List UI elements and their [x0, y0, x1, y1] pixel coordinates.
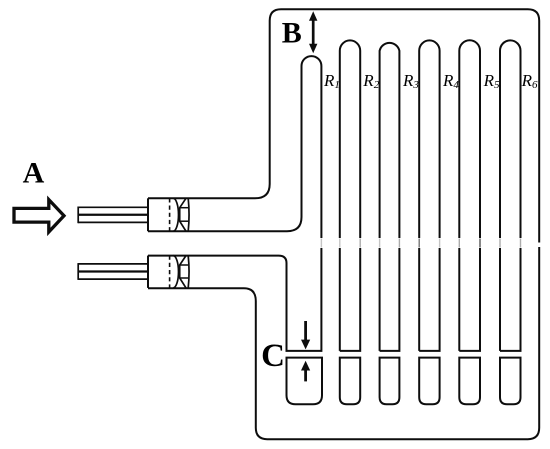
svg-text:R5: R5	[483, 71, 500, 91]
label B	[282, 16, 302, 49]
channel R6 body	[500, 40, 521, 351]
faded wall residue in gap band	[321, 239, 520, 248]
svg-text:R6: R6	[521, 71, 538, 91]
dimension arrow C down	[301, 321, 310, 349]
channel R5 body	[459, 40, 480, 351]
outlet stub 4	[419, 358, 439, 405]
lower inlet tube	[78, 263, 148, 280]
label R4	[442, 71, 459, 91]
label C	[261, 338, 285, 374]
dimension arrow C up	[301, 361, 310, 382]
channel R3 body	[380, 43, 400, 351]
inlet manifold wall (upper channel bottom wall, R1 left wall, R1 dome, R1 right wall, bottom cap, strip left wall, lower channel top wall)	[148, 56, 321, 351]
upper inlet connector	[148, 198, 189, 231]
outlet stub 6	[500, 358, 521, 405]
outlet stub 5	[459, 358, 480, 405]
channel R2 body	[340, 40, 360, 351]
chip outer outline	[148, 9, 539, 439]
svg-text:R1: R1	[323, 71, 340, 91]
dimension arrow B (double-headed vertical)	[309, 11, 317, 53]
upper inlet tube	[78, 207, 148, 224]
flow arrow A (block arrow)	[14, 200, 64, 232]
svg-text:C: C	[261, 338, 285, 374]
svg-text:A: A	[23, 156, 45, 189]
label A	[23, 156, 45, 189]
label R6	[521, 71, 538, 91]
svg-text:R2: R2	[362, 71, 379, 91]
right edge gap	[538, 243, 541, 248]
svg-text:B: B	[282, 16, 302, 49]
svg-text:R3: R3	[402, 71, 419, 91]
outlet stub 1 (below R1)	[287, 358, 323, 405]
outlet stub 3	[380, 358, 400, 405]
channel R4 body	[419, 40, 439, 351]
lower inlet connector	[148, 256, 189, 288]
label R5	[483, 71, 500, 91]
label R2	[362, 71, 379, 91]
label R1	[323, 71, 340, 91]
svg-text:R4: R4	[442, 71, 459, 91]
outlet stub 2	[340, 358, 360, 405]
label R3	[402, 71, 419, 91]
